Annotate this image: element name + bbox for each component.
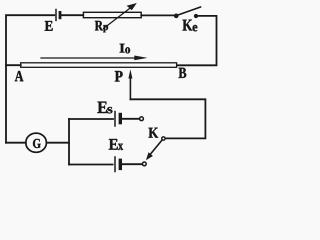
wire: junction vertical between Es and Ex branches — [68, 119, 70, 165]
switch Ke (contacts and blade) — [175, 7, 201, 18]
wire: Ex branch right segment — [123, 163, 142, 165]
wire: galvanometer to junction — [47, 142, 70, 144]
wire: stub from left rail to A end — [6, 64, 21, 66]
contact circle of Es branch — [140, 117, 144, 121]
label I0 — [120, 44, 130, 54]
wire: Es branch left segment — [69, 118, 113, 120]
label K — [149, 128, 159, 138]
wire: rheostat to switch Ke — [141, 14, 174, 16]
wire: left rail to galvanometer — [6, 142, 26, 144]
rheostat Rp box — [83, 12, 141, 17]
wire: Es branch right segment — [123, 118, 140, 120]
current arrow I0 — [41, 56, 148, 61]
label Ke — [183, 20, 198, 32]
slider P arrow — [128, 69, 132, 99]
rheostat Rp arrow — [104, 3, 137, 29]
switch K common contact — [162, 137, 165, 140]
wire: Ex branch left segment — [69, 164, 113, 166]
battery Ex (unknown emf) — [115, 157, 120, 172]
slide wire bar A-B — [21, 63, 177, 68]
switch K blade with arrow — [146, 140, 162, 160]
contact circle of Ex branch — [142, 162, 146, 166]
label Ex — [109, 139, 123, 150]
wire: battery E to rheostat — [62, 14, 84, 16]
label E — [45, 21, 53, 31]
battery E — [56, 10, 60, 21]
label P — [115, 71, 123, 82]
label Rp — [95, 21, 108, 32]
wire: P down, right and down to switch K — [130, 99, 205, 138]
wire: top-left corner and left rail — [6, 15, 54, 143]
wire: Ke to top-right corner, right rail down to B — [177, 16, 217, 65]
node A label — [15, 71, 24, 81]
node B label — [179, 68, 187, 78]
battery Es (standard cell) — [115, 112, 120, 127]
galvanometer G — [26, 133, 47, 152]
label Es — [98, 102, 113, 114]
